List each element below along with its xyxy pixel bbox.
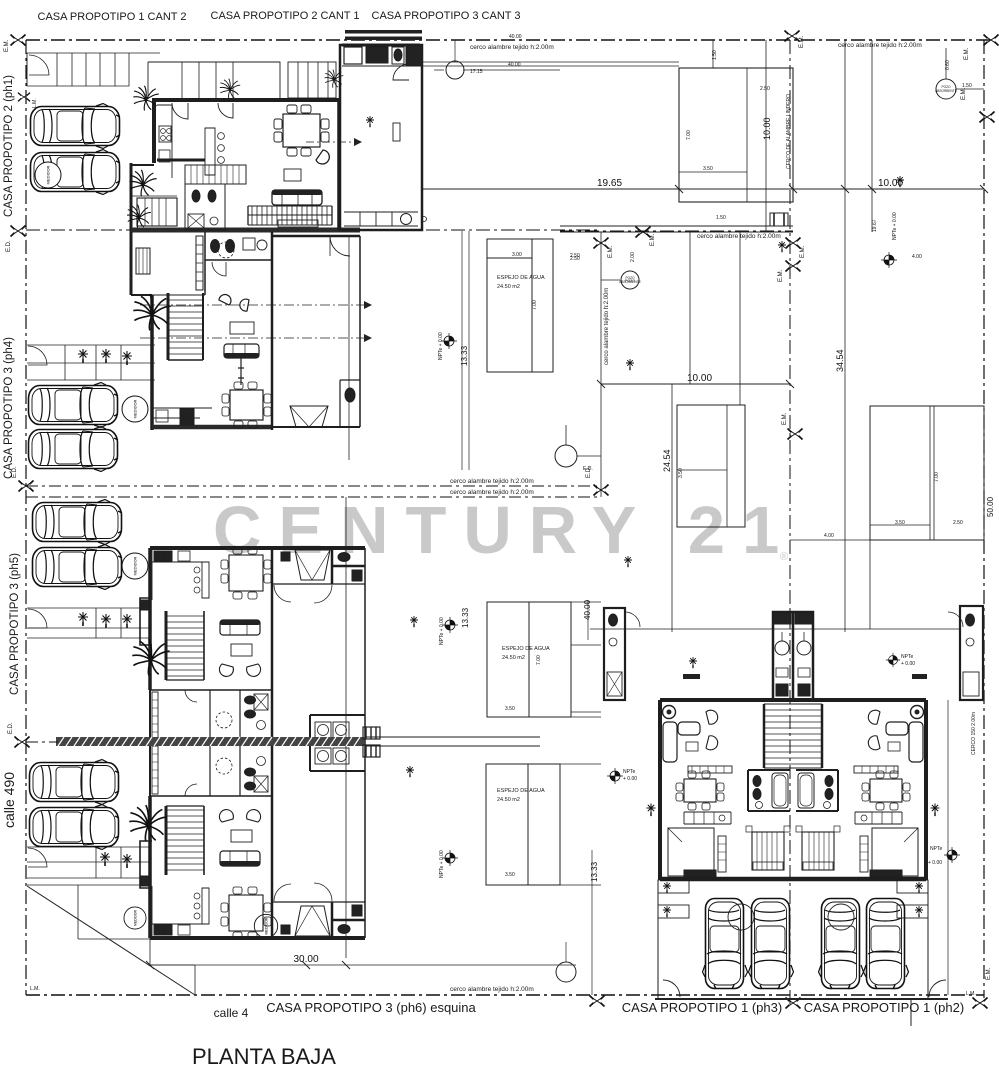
svg-text:2.50: 2.50	[570, 253, 580, 259]
svg-text:+ 0.00: + 0.00	[901, 661, 915, 667]
svg-text:cerco alambre tejido h:2.00m: cerco alambre tejido h:2.00m	[450, 986, 534, 993]
svg-text:2.00: 2.00	[630, 252, 636, 262]
svg-text:E.M.: E.M.	[799, 35, 805, 48]
svg-text:cerco alambre tejido h:2.00m: cerco alambre tejido h:2.00m	[838, 42, 922, 49]
svg-text:E.D.: E.D.	[583, 466, 593, 472]
svg-text:19.67: 19.67	[872, 219, 878, 232]
svg-text:E.M.: E.M.	[650, 233, 656, 246]
svg-text:7.00: 7.00	[934, 472, 940, 482]
svg-text:19.65: 19.65	[597, 178, 622, 189]
svg-text:7.00: 7.00	[536, 655, 542, 665]
svg-text:CASA PROPOTIPO 3 CANT 3: CASA PROPOTIPO 3 CANT 3	[372, 10, 521, 22]
svg-text:calle 490: calle 490	[1, 772, 17, 828]
svg-text:3.00: 3.00	[512, 252, 522, 258]
svg-text:®: ®	[780, 551, 788, 563]
svg-text:4.00: 4.00	[824, 533, 834, 539]
svg-text:+ 0.00: + 0.00	[623, 776, 637, 782]
svg-text:NPTe: NPTe	[623, 769, 635, 775]
svg-text:13.33: 13.33	[460, 345, 469, 366]
svg-text:E.D.: E.D.	[6, 240, 12, 252]
svg-text:NPTe + 0.00: NPTe + 0.00	[439, 850, 445, 878]
svg-text:CASA PROPOTIPO 3 (ph5): CASA PROPOTIPO 3 (ph5)	[9, 553, 21, 695]
svg-text:NPTe + 0.00: NPTe + 0.00	[439, 617, 445, 645]
svg-text:13.33: 13.33	[461, 607, 470, 628]
svg-text:30.00: 30.00	[293, 954, 318, 965]
svg-text:CASA PROPOTIPO 2 CANT 1: CASA PROPOTIPO 2 CANT 1	[211, 10, 360, 22]
svg-text:CASA PROPOTIPO 1 (ph2): CASA PROPOTIPO 1 (ph2)	[804, 1000, 964, 1015]
svg-text:1.50: 1.50	[716, 215, 726, 221]
svg-text:3.50: 3.50	[703, 166, 713, 172]
svg-text:17.15: 17.15	[470, 69, 483, 75]
svg-text:cerco alambre tejido h:2.00m: cerco alambre tejido h:2.00m	[450, 478, 534, 485]
svg-text:CASA PROPOTIPO 2 (ph1): CASA PROPOTIPO 2 (ph1)	[3, 75, 15, 217]
svg-text:CENTURY 21: CENTURY 21	[213, 493, 796, 568]
svg-text:cerco alambre tejido h:2.00m: cerco alambre tejido h:2.00m	[450, 489, 534, 496]
svg-text:3.50: 3.50	[678, 468, 684, 478]
svg-text:24.50 m2: 24.50 m2	[497, 797, 520, 803]
svg-text:ESPEJO DE AGUA: ESPEJO DE AGUA	[497, 788, 545, 794]
svg-text:34.54: 34.54	[835, 349, 845, 372]
svg-text:ABSORBENTE: ABSORBENTE	[935, 89, 957, 93]
svg-text:PLANTA BAJA: PLANTA BAJA	[192, 1044, 336, 1069]
svg-text:40.00: 40.00	[583, 599, 592, 620]
svg-text:7.00: 7.00	[532, 300, 538, 310]
svg-text:24.50 m2: 24.50 m2	[502, 655, 525, 661]
svg-text:10.00: 10.00	[762, 117, 772, 140]
svg-text:40.00: 40.00	[509, 34, 522, 40]
svg-text:2.50: 2.50	[760, 86, 770, 92]
svg-text:40.00: 40.00	[508, 62, 521, 68]
svg-text:NPTe + 0.00: NPTe + 0.00	[892, 212, 898, 240]
svg-text:24.54: 24.54	[662, 449, 672, 472]
svg-text:2.50: 2.50	[953, 520, 963, 526]
svg-text:50.00: 50.00	[986, 496, 995, 517]
svg-text:3.50: 3.50	[895, 520, 905, 526]
svg-text:ESPEJO DE AGUA: ESPEJO DE AGUA	[497, 275, 545, 281]
svg-text:L.M.: L.M.	[966, 991, 976, 997]
svg-text:L.M.: L.M.	[30, 986, 40, 992]
svg-text:cerco alambre tejido h:2.00m: cerco alambre tejido h:2.00m	[697, 233, 781, 240]
svg-text:4.00: 4.00	[912, 254, 922, 260]
svg-text:CASA PROPOTIPO 3 (ph4): CASA PROPOTIPO 3 (ph4)	[3, 337, 15, 479]
svg-text:24.50 m2: 24.50 m2	[497, 284, 520, 290]
svg-text:E.M.: E.M.	[778, 269, 784, 282]
svg-text:CASA PROPOTIPO 1 CANT 2: CASA PROPOTIPO 1 CANT 2	[38, 11, 187, 23]
svg-text:cerco alambre tejido h:2.00m: cerco alambre tejido h:2.00m	[604, 288, 610, 365]
svg-text:CASA PROPOTIPO 1 (ph3): CASA PROPOTIPO 1 (ph3)	[622, 1000, 782, 1015]
svg-text:ABSORBENTE: ABSORBENTE	[619, 280, 641, 284]
svg-text:1.50: 1.50	[712, 50, 718, 60]
svg-text:E.M.: E.M.	[964, 47, 970, 60]
svg-text:13.33: 13.33	[590, 861, 599, 882]
svg-text:cerco alambre tejido h:2.00m: cerco alambre tejido h:2.00m	[470, 44, 554, 51]
svg-text:E.M.: E.M.	[782, 412, 788, 425]
svg-text:CERCO 150 2.00m: CERCO 150 2.00m	[971, 712, 977, 755]
svg-text:CERCO DE ALAMBRE LINDERO: CERCO DE ALAMBRE LINDERO	[786, 94, 792, 169]
svg-text:NPTe: NPTe	[930, 846, 942, 852]
svg-text:3.50: 3.50	[505, 706, 515, 712]
svg-text:E.M.: E.M.	[4, 39, 10, 52]
svg-text:ESPEJO DE AGUA: ESPEJO DE AGUA	[502, 646, 550, 652]
svg-text:E.D.: E.D.	[8, 722, 14, 734]
svg-text:CASA PROPOTIPO 3 (ph6) esquina: CASA PROPOTIPO 3 (ph6) esquina	[266, 1000, 476, 1015]
svg-text:3.50: 3.50	[505, 872, 515, 878]
svg-text:0.60: 0.60	[945, 60, 951, 70]
svg-text:NPTe + 0.00: NPTe + 0.00	[438, 332, 444, 360]
svg-text:E.M.: E.M.	[986, 967, 992, 980]
svg-text:E.M.: E.M.	[800, 245, 806, 258]
svg-text:calle 4: calle 4	[214, 1006, 249, 1020]
svg-text:E.D.: E.D.	[12, 466, 18, 478]
svg-text:+ 0.00: + 0.00	[928, 860, 942, 866]
svg-text:10.00: 10.00	[687, 373, 712, 384]
svg-text:NPTe: NPTe	[901, 654, 913, 660]
svg-text:7.00: 7.00	[686, 130, 692, 140]
svg-text:E.M.: E.M.	[608, 245, 614, 258]
svg-text:E.M.: E.M.	[961, 87, 967, 100]
svg-text:L.M.: L.M.	[32, 98, 38, 108]
